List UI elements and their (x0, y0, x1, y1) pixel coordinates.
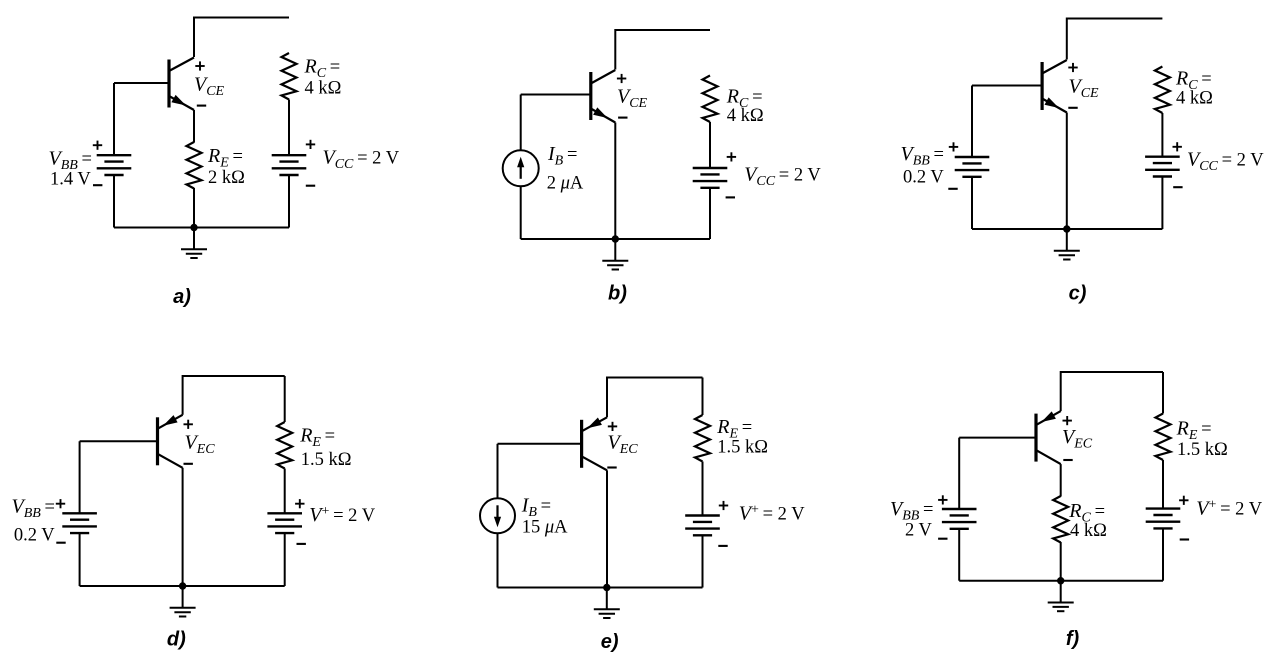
svg-text:e): e) (601, 631, 619, 653)
wire VCC bottom (288, 175, 290, 228)
bottom rail wire (circuit c) (972, 228, 1162, 230)
wire VBB top (113, 83, 115, 155)
plus sign VBB (f) (938, 495, 947, 504)
current source IB 2uA (503, 150, 539, 186)
bottom rail wire (circuit b) (521, 238, 710, 240)
wire V+ bottom (f) (1162, 528, 1164, 580)
ground (circuit c) (1054, 229, 1080, 260)
plus sign VBB (93, 141, 102, 150)
resistor RC 4k (circuit b) (703, 76, 718, 123)
svg-text:VCC = 2 V: VCC = 2 V (1187, 149, 1264, 175)
transistor Q3 (npn) (1042, 60, 1067, 113)
minus sign VCC (a) (306, 185, 315, 187)
ground (circuit a) (181, 228, 207, 259)
minus sign V+ (d) (297, 543, 306, 545)
ground (circuit f) (1048, 581, 1074, 612)
svg-text:0.2 V: 0.2 V (903, 168, 944, 188)
svg-text:1.4 V: 1.4 V (50, 170, 91, 190)
transistor Q1 (npn) (169, 58, 194, 111)
svg-text:V+ = 2 V: V+ = 2 V (739, 503, 805, 525)
node junction (circuit d) (179, 582, 186, 589)
battery VCC 2V (circuit b) (693, 168, 728, 188)
plus sign VCE (b) (617, 74, 626, 83)
circuit d top rail wire (183, 375, 285, 377)
wire VCC bottom (b) (709, 188, 711, 239)
wire RE to V+ (e) (702, 462, 704, 516)
plus sign V+ (f) (1179, 496, 1188, 505)
battery VBB 2V (f) (942, 509, 977, 529)
wire V+ bottom (d) (284, 533, 286, 586)
svg-text:1.5 kΩ: 1.5 kΩ (301, 450, 352, 470)
wire RC to VCC (b) (709, 122, 711, 168)
wire emitter down (b) (614, 123, 616, 240)
wire VBB bottom (c) (971, 177, 973, 229)
bottom rail wire (circuit e) (498, 587, 703, 589)
transistor Q2 (npn) (591, 70, 616, 123)
wire emitter down (c) (1066, 113, 1068, 230)
battery V+ 2V (circuit e) (685, 516, 720, 536)
minus sign VCE (a) (197, 105, 206, 107)
svg-text:b): b) (608, 283, 627, 305)
minus sign V+ (f) (1180, 538, 1189, 540)
transistor Q4 (pnp) (158, 415, 183, 468)
minus sign VEC (e) (607, 466, 616, 468)
wire base (b) (521, 94, 591, 96)
plus sign VEC (d) (184, 420, 193, 429)
current source IB 15uA (480, 498, 515, 533)
minus sign V+ (e) (718, 545, 727, 547)
battery V+ 2V (circuit f) (1146, 509, 1181, 529)
battery VBB 1.4V (97, 155, 132, 175)
wire base (d) (80, 440, 158, 442)
resistor RE 1.5k (circuit f) (1156, 414, 1171, 461)
svg-text:1.5 kΩ: 1.5 kΩ (1177, 440, 1228, 460)
svg-text:4 kΩ: 4 kΩ (305, 78, 342, 98)
node junction (circuit c) (1063, 225, 1070, 232)
wire VBB top (f) (958, 438, 960, 509)
wire VBB bottom (113, 175, 115, 228)
wire base (e) (498, 443, 582, 445)
plus sign VCE (a) (195, 61, 204, 70)
wire collector down (d) (182, 468, 184, 586)
ground (circuit d) (170, 586, 196, 617)
wire emitter down (193, 110, 195, 143)
svg-text:V+ = 2 V: V+ = 2 V (1196, 498, 1262, 520)
resistor RC 4k (circuit f) (1053, 496, 1068, 543)
wire V+ bottom (e) (702, 535, 704, 587)
wire emitter to top rail (e) (606, 377, 608, 418)
circuit b top rail wire (615, 29, 710, 31)
minus sign VEC (f) (1063, 459, 1072, 461)
bottom rail wire (circuit a) (114, 227, 289, 229)
node junction (circuit a) (190, 224, 197, 231)
bottom rail wire (circuit d) (80, 585, 285, 587)
wire top rail to RE (e) (702, 378, 704, 416)
minus sign VCC (b) (726, 196, 735, 198)
minus sign VCC (c) (1173, 186, 1182, 188)
battery VBB 0.2V (d) (62, 513, 97, 533)
svg-text:2 kΩ: 2 kΩ (208, 168, 245, 188)
wire RE to V+ (d) (284, 469, 286, 514)
resistor RE 2k (circuit a) (187, 142, 202, 189)
wire base (f) (959, 437, 1036, 439)
ground (circuit e) (594, 588, 620, 619)
wire base (c) (972, 85, 1042, 87)
transistor Q5 (pnp) (582, 417, 607, 470)
minus sign VBB (93, 184, 102, 186)
wire IB source bottom (520, 186, 522, 239)
svg-text:4 kΩ: 4 kΩ (1070, 521, 1107, 541)
plus sign VEC (e) (608, 422, 617, 431)
svg-text:1.5 kΩ: 1.5 kΩ (717, 438, 768, 458)
wire IB source top (520, 95, 522, 151)
plus sign VBB (d) (56, 499, 65, 508)
svg-text:d): d) (167, 629, 186, 651)
circuit f top rail wire (1061, 371, 1163, 373)
svg-text:15 μA: 15 μA (522, 518, 568, 538)
wire RE to bottom rail (193, 188, 195, 228)
node junction (circuit f) (1057, 577, 1064, 584)
circuit e top rail wire (607, 377, 703, 379)
node junction (circuit b) (612, 235, 619, 242)
minus sign VCE (b) (618, 117, 627, 119)
resistor RC 4k (circuit a) (282, 53, 297, 100)
plus sign VCC (a) (306, 140, 315, 149)
svg-text:f): f) (1066, 628, 1080, 650)
transistor Q6 (pnp) (1036, 411, 1061, 464)
wire emitter to top rail (d) (182, 375, 184, 415)
svg-text:a): a) (173, 286, 191, 308)
svg-text:c): c) (1069, 283, 1087, 305)
battery VCC 2V (circuit a) (272, 155, 307, 175)
minus sign VEC (d) (184, 463, 193, 465)
plus sign V+ (e) (719, 501, 728, 510)
wire IB source top (e) (497, 444, 499, 499)
plus sign VCE (c) (1068, 63, 1077, 72)
wire VBB top (d) (79, 441, 81, 513)
resistor RC 4k (circuit c) (1155, 67, 1170, 114)
wire VCC bottom (c) (1161, 177, 1163, 230)
circuit c top rail wire (1067, 18, 1163, 20)
battery VCC 2V (circuit c) (1145, 157, 1180, 177)
svg-text:VCC = 2 V: VCC = 2 V (744, 164, 821, 190)
plus sign VCC (b) (727, 152, 736, 161)
wire collector to top rail (b) (614, 29, 616, 70)
battery VBB 0.2V (955, 157, 990, 177)
wire VBB top (c) (971, 86, 973, 158)
bottom rail wire (circuit f) (959, 580, 1163, 582)
wire collector to top rail (193, 17, 195, 58)
wire RE to V+ (f) (1162, 460, 1164, 509)
wire base (114, 82, 169, 84)
svg-text:VCC = 2 V: VCC = 2 V (323, 147, 400, 173)
plus sign V+ (d) (295, 499, 304, 508)
resistor RE 1.5k (circuit d) (277, 422, 292, 469)
battery V+ 2V (circuit d) (267, 513, 302, 533)
node junction (circuit e) (603, 584, 610, 591)
svg-text:2 V: 2 V (905, 521, 933, 541)
wire collector down (e) (606, 470, 608, 587)
plus sign VEC (f) (1063, 416, 1072, 425)
svg-text:2 μA: 2 μA (547, 173, 584, 193)
wire top rail to RE (d) (284, 376, 286, 422)
circuit a top rail wire (194, 17, 289, 19)
svg-text:V+ = 2 V: V+ = 2 V (309, 504, 375, 526)
wire top rail to RE (f) (1162, 372, 1164, 414)
minus sign VCE (c) (1068, 107, 1077, 109)
svg-text:4 kΩ: 4 kΩ (1176, 89, 1213, 109)
wire RC to VCC (288, 100, 290, 156)
minus sign VBB (f) (938, 538, 947, 540)
svg-text:4 kΩ: 4 kΩ (727, 106, 764, 126)
plus sign VCC (c) (1173, 142, 1182, 151)
wire RC to VCC (c) (1161, 113, 1163, 157)
ground (circuit b) (602, 239, 628, 270)
minus sign VBB (d) (56, 542, 65, 544)
wire RC to bottom rail (f) (1060, 542, 1062, 581)
plus sign VBB (c) (949, 142, 958, 151)
svg-text:0.2 V: 0.2 V (14, 526, 55, 546)
wire IB source bottom (e) (497, 533, 499, 587)
wire collector to RC (f) (1060, 464, 1062, 496)
wire VBB bottom (d) (79, 533, 81, 586)
resistor RE 1.5k (circuit e) (695, 415, 710, 462)
wire collector to top rail (c) (1066, 18, 1068, 60)
wire VBB bottom (f) (958, 529, 960, 581)
wire emitter to top rail (f) (1060, 371, 1062, 411)
minus sign VBB (c) (948, 188, 957, 190)
